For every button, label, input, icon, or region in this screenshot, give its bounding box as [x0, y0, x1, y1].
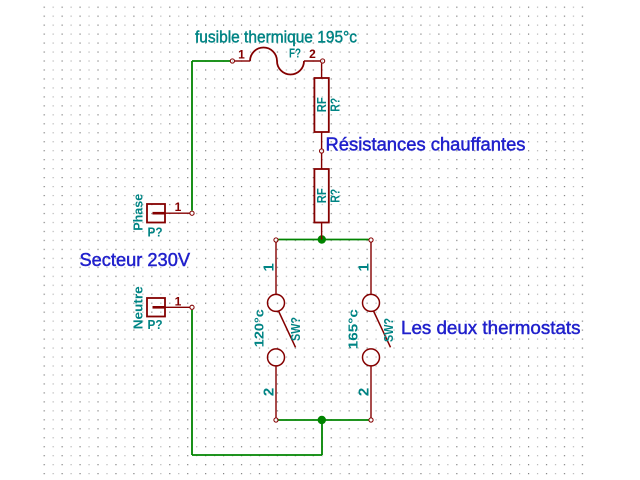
thermostat SW2 (165°c) pin 1 line: [370, 242, 372, 294]
Phase pin line: [165, 212, 190, 214]
svg-text:1: 1: [238, 48, 245, 62]
pin junction circle between R1 and R2: [320, 149, 324, 153]
fuse F? body: [235, 48, 320, 75]
svg-text:fusible thermique 195°c: fusible thermique 195°c: [195, 28, 357, 47]
SW2 pin1 end circle: [369, 238, 373, 242]
fuse pin1 circle: [230, 59, 234, 63]
Neutre pin circle: [190, 305, 194, 309]
connector P? Phase box: [147, 204, 165, 223]
Neutre box inner line: [153, 306, 165, 309]
resistor R2 pin bottom: [321, 223, 323, 240]
svg-text:P?: P?: [148, 317, 163, 332]
SW1 top contact circle: [268, 294, 285, 311]
svg-text:2: 2: [261, 388, 278, 396]
wire: thermostat bottom bus: [278, 419, 368, 421]
svg-text:2: 2: [356, 388, 373, 396]
svg-text:165°c: 165°c: [346, 309, 361, 349]
svg-text:SW?: SW?: [288, 317, 303, 341]
SW2 pin 2 line: [370, 366, 372, 418]
SW1 pin 2 line: [275, 366, 277, 418]
resistor R2 body: [314, 169, 328, 223]
svg-text:1: 1: [175, 200, 182, 214]
SW1 pin1 end circle: [274, 238, 278, 242]
wire: fuse pin1 to left corner: [192, 60, 231, 62]
resistor R1 body: [314, 78, 328, 132]
resistor R2 pin top: [321, 153, 323, 169]
SW2 pin2 end circle: [369, 418, 373, 422]
wire: thermostat top bus: [278, 239, 368, 241]
Phase pin circle: [190, 211, 194, 215]
resistor R1 pin bottom: [321, 132, 323, 149]
svg-text:R?: R?: [328, 98, 343, 112]
SW2 lever: [374, 311, 391, 347]
svg-text:1: 1: [261, 263, 278, 271]
svg-text:Secteur 230V: Secteur 230V: [80, 250, 191, 270]
wire: bottom riser to thermostat bus: [321, 420, 323, 455]
svg-text:Phase: Phase: [131, 194, 146, 231]
svg-text:Neutre: Neutre: [131, 286, 146, 329]
Neutre pin line: [165, 306, 190, 308]
junction bottom bus: [318, 416, 326, 424]
SW1 lever: [279, 311, 296, 347]
svg-text:R?: R?: [328, 189, 343, 203]
thermostat SW1 (120°c) pin 1 line: [275, 242, 277, 294]
connector P? Neutre box: [147, 298, 165, 317]
svg-text:1: 1: [356, 263, 373, 271]
svg-text:SW?: SW?: [381, 318, 396, 342]
fuse pin2 circle: [321, 59, 325, 63]
SW2 bottom contact circle: [363, 349, 380, 366]
svg-text:F?: F?: [289, 46, 301, 61]
svg-text:Les deux thermostats: Les deux thermostats: [401, 318, 581, 338]
SW1 pin2 end circle: [274, 418, 278, 422]
SW2 top contact circle: [363, 294, 380, 311]
wire: left vertical down to Phase pin: [191, 61, 193, 211]
svg-text:Résistances chauffantes: Résistances chauffantes: [326, 135, 526, 155]
svg-text:2: 2: [309, 47, 316, 61]
svg-text:1: 1: [175, 294, 182, 308]
wire: bottom horizontal: [192, 454, 322, 456]
svg-text:P?: P?: [148, 225, 163, 240]
svg-text:120°c: 120°c: [251, 309, 266, 347]
junction top bus: [318, 235, 326, 243]
resistor R1 pin top: [321, 63, 323, 78]
Phase box inner line: [153, 212, 165, 215]
wire: Neutre pin down left vertical: [191, 310, 193, 455]
SW1 bottom contact circle: [268, 349, 285, 366]
